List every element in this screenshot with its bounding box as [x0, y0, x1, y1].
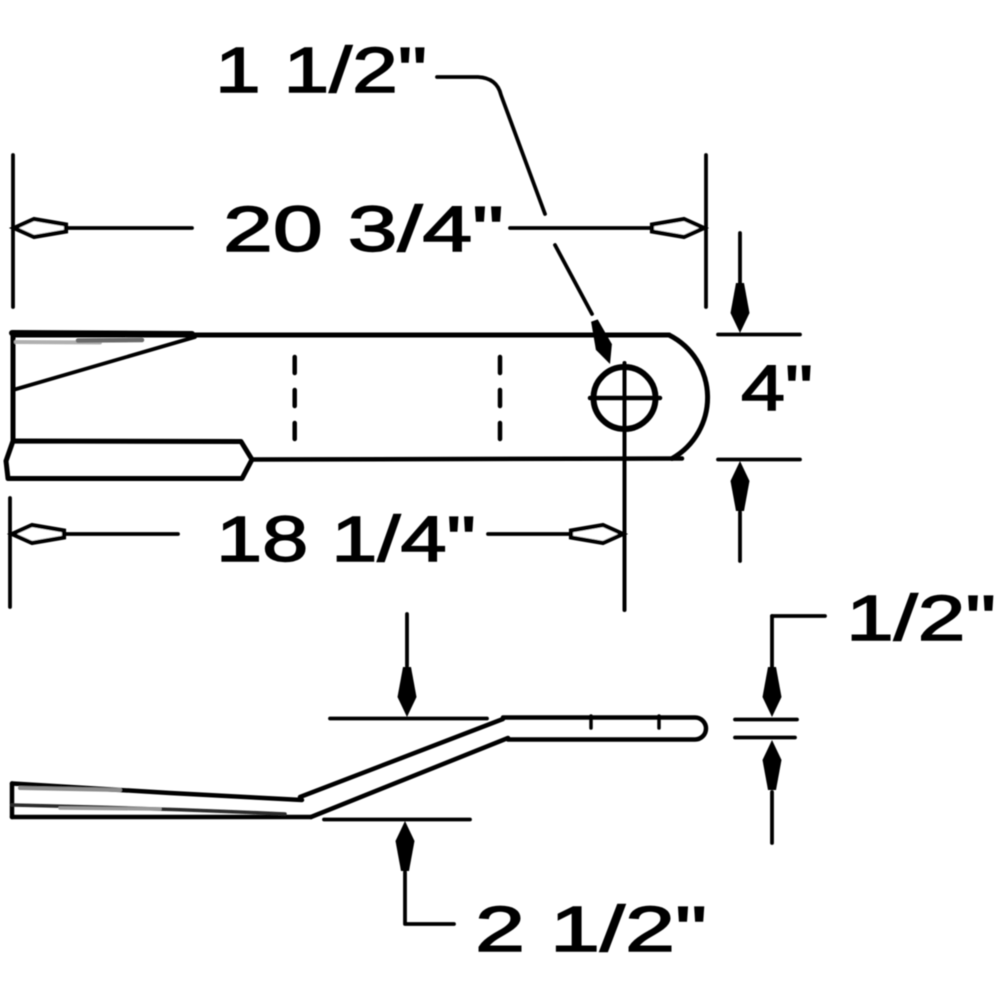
- svg-text:2 1/2": 2 1/2": [475, 893, 707, 965]
- svg-text:20 3/4": 20 3/4": [223, 193, 504, 265]
- svg-text:1 1/2": 1 1/2": [215, 34, 427, 106]
- svg-text:4": 4": [741, 352, 813, 424]
- svg-text:1/2": 1/2": [846, 582, 996, 654]
- svg-text:18 1/4": 18 1/4": [216, 503, 476, 575]
